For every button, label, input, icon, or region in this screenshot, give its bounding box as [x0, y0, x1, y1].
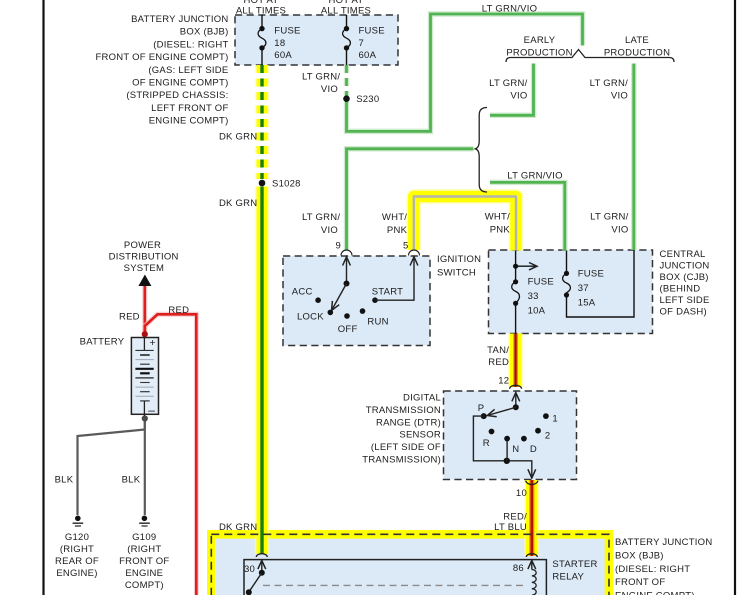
svg-text:60A: 60A — [274, 50, 292, 61]
svg-text:FUSE: FUSE — [528, 277, 554, 288]
svg-text:WHT/: WHT/ — [485, 212, 510, 223]
svg-text:DIGITAL: DIGITAL — [403, 393, 441, 404]
svg-text:START: START — [372, 287, 404, 298]
svg-text:BOX (BJB): BOX (BJB) — [615, 550, 664, 561]
svg-text:N: N — [512, 444, 519, 455]
svg-text:OF DASH): OF DASH) — [660, 306, 707, 317]
svg-text:BATTERY: BATTERY — [80, 336, 125, 347]
svg-text:ENGINE): ENGINE) — [56, 568, 97, 579]
svg-text:(LEFT SIDE OF: (LEFT SIDE OF — [371, 442, 441, 453]
svg-text:FRONT OF: FRONT OF — [615, 577, 665, 588]
svg-text:+: + — [149, 337, 155, 349]
svg-text:WHT/: WHT/ — [382, 212, 407, 223]
svg-text:ALL TIMES: ALL TIMES — [236, 5, 286, 16]
svg-text:7: 7 — [359, 38, 365, 49]
svg-text:PRODUCTION: PRODUCTION — [604, 47, 670, 58]
svg-text:LOCK: LOCK — [297, 312, 324, 323]
svg-text:R: R — [483, 438, 490, 449]
svg-text:STARTER: STARTER — [552, 559, 597, 570]
svg-text:ENGINE COMPT): ENGINE COMPT) — [615, 591, 695, 595]
svg-text:COMPT): COMPT) — [125, 580, 164, 591]
svg-text:LT BLU: LT BLU — [494, 522, 527, 533]
svg-text:18: 18 — [274, 38, 285, 49]
svg-text:FRONT OF: FRONT OF — [119, 556, 169, 567]
svg-text:DK GRN: DK GRN — [219, 131, 257, 142]
svg-text:DK GRN: DK GRN — [219, 198, 257, 209]
svg-text:ACC: ACC — [292, 287, 313, 298]
svg-text:FUSE: FUSE — [578, 269, 604, 280]
svg-text:RELAY: RELAY — [552, 572, 584, 583]
svg-text:LATE: LATE — [625, 35, 649, 46]
svg-text:33: 33 — [528, 291, 539, 302]
svg-text:D: D — [530, 444, 537, 455]
svg-text:2: 2 — [545, 430, 551, 441]
svg-text:TRANSMISSION: TRANSMISSION — [366, 405, 441, 416]
svg-text:RED: RED — [119, 312, 140, 323]
svg-text:LEFT FRONT OF: LEFT FRONT OF — [151, 103, 228, 114]
svg-text:BLK: BLK — [122, 475, 141, 486]
svg-text:30: 30 — [244, 564, 255, 575]
svg-text:(DIESEL: RIGHT: (DIESEL: RIGHT — [153, 39, 228, 50]
svg-text:S1028: S1028 — [272, 179, 301, 190]
svg-text:SWITCH: SWITCH — [437, 267, 476, 278]
svg-text:LEFT SIDE: LEFT SIDE — [660, 295, 710, 306]
svg-text:BLK: BLK — [55, 475, 74, 486]
svg-text:60A: 60A — [359, 50, 377, 61]
svg-text:IGNITION: IGNITION — [437, 254, 481, 265]
svg-text:ALL TIMES: ALL TIMES — [321, 5, 371, 16]
svg-text:PNK: PNK — [387, 225, 408, 236]
svg-text:DISTRIBUTION: DISTRIBUTION — [109, 252, 179, 263]
svg-text:FRONT OF ENGINE COMPT): FRONT OF ENGINE COMPT) — [95, 52, 228, 63]
svg-text:LT GRN/VIO: LT GRN/VIO — [482, 4, 537, 15]
svg-text:P: P — [478, 403, 485, 414]
svg-text:ENGINE: ENGINE — [125, 568, 163, 579]
svg-text:REAR OF: REAR OF — [55, 556, 99, 567]
svg-text:BOX (BJB): BOX (BJB) — [180, 27, 229, 38]
svg-text:OFF: OFF — [338, 324, 358, 335]
svg-text:(BEHIND: (BEHIND — [660, 283, 701, 294]
svg-text:JUNCTION: JUNCTION — [660, 260, 710, 271]
svg-text:VIO: VIO — [321, 84, 338, 95]
svg-text:G120: G120 — [65, 532, 89, 543]
svg-text:RED/: RED/ — [503, 511, 527, 522]
svg-text:LT GRN/: LT GRN/ — [590, 78, 628, 89]
svg-text:VIO: VIO — [321, 225, 338, 236]
svg-text:(RIGHT: (RIGHT — [60, 544, 94, 555]
svg-text:86: 86 — [513, 563, 524, 574]
svg-text:9: 9 — [335, 240, 341, 251]
svg-text:VIO: VIO — [510, 90, 527, 101]
svg-text:LT GRN/: LT GRN/ — [489, 78, 527, 89]
svg-text:FUSE: FUSE — [274, 26, 300, 37]
svg-text:DK GRN: DK GRN — [219, 522, 257, 533]
svg-text:SYSTEM: SYSTEM — [124, 263, 165, 274]
svg-text:S230: S230 — [356, 94, 379, 105]
svg-text:FUSE: FUSE — [359, 26, 385, 37]
svg-text:TRANSMISSION): TRANSMISSION) — [362, 455, 441, 466]
svg-text:EARLY: EARLY — [524, 35, 556, 46]
svg-text:ENGINE COMPT): ENGINE COMPT) — [149, 116, 229, 127]
svg-text:OF ENGINE COMPT): OF ENGINE COMPT) — [132, 78, 228, 89]
svg-text:(RIGHT: (RIGHT — [127, 544, 161, 555]
svg-text:POWER: POWER — [124, 240, 161, 251]
svg-text:15A: 15A — [578, 297, 596, 308]
svg-text:RED: RED — [168, 305, 189, 316]
svg-text:LT GRN/: LT GRN/ — [302, 212, 340, 223]
svg-text:10: 10 — [516, 488, 527, 499]
svg-text:G109: G109 — [132, 532, 156, 543]
svg-text:PNK: PNK — [490, 225, 511, 236]
svg-text:(STRIPPED CHASSIS:: (STRIPPED CHASSIS: — [126, 90, 228, 101]
svg-text:BOX (CJB): BOX (CJB) — [660, 272, 709, 283]
svg-text:(DIESEL: RIGHT: (DIESEL: RIGHT — [615, 564, 690, 575]
svg-text:CENTRAL: CENTRAL — [660, 249, 706, 260]
svg-text:12: 12 — [498, 375, 509, 386]
svg-text:LT GRN/: LT GRN/ — [590, 212, 628, 223]
svg-text:BATTERY JUNCTION: BATTERY JUNCTION — [615, 537, 712, 548]
svg-text:VIO: VIO — [611, 90, 628, 101]
svg-text:RANGE (DTR): RANGE (DTR) — [376, 417, 441, 428]
svg-text:RED: RED — [488, 357, 509, 368]
svg-text:LT GRN/: LT GRN/ — [302, 71, 340, 82]
svg-text:BATTERY JUNCTION: BATTERY JUNCTION — [131, 14, 228, 25]
svg-text:SENSOR: SENSOR — [399, 430, 441, 441]
svg-text:VIO: VIO — [611, 225, 628, 236]
svg-text:(GAS: LEFT SIDE: (GAS: LEFT SIDE — [148, 65, 228, 76]
svg-text:10A: 10A — [528, 305, 546, 316]
svg-text:1: 1 — [552, 413, 558, 424]
svg-text:37: 37 — [578, 283, 589, 294]
svg-text:RUN: RUN — [367, 317, 388, 328]
svg-text:TAN/: TAN/ — [487, 345, 509, 356]
svg-text:PRODUCTION: PRODUCTION — [506, 47, 572, 58]
svg-text:LT GRN/VIO: LT GRN/VIO — [507, 170, 562, 181]
svg-text:5: 5 — [403, 240, 409, 251]
svg-text:–: – — [148, 403, 155, 417]
